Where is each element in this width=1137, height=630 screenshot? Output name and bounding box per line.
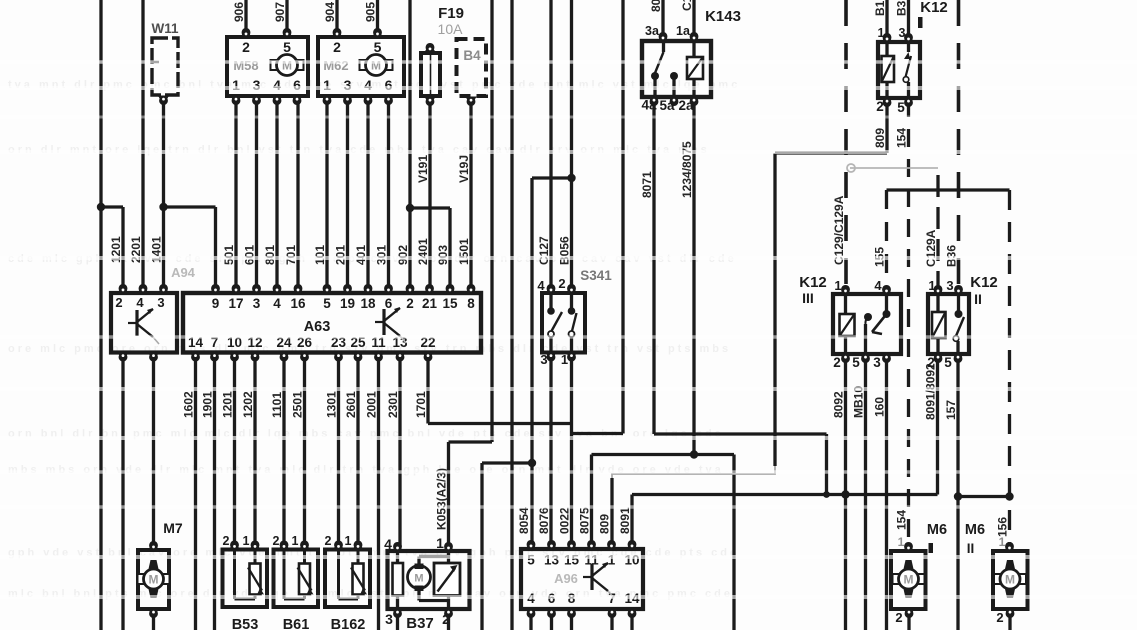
wire B37 pin 2 to bottom [447, 611, 450, 630]
svg-text:2: 2 [333, 39, 341, 55]
svg-text:907: 907 [273, 2, 287, 22]
switch S341 [537, 268, 612, 367]
wire B37 pin 3 to bottom [396, 611, 399, 630]
svg-text:8091: 8091 [618, 507, 632, 534]
wire 906 (M58 pin 2) [232, 0, 246, 34]
svg-text:4: 4 [384, 536, 392, 552]
svg-text:S341: S341 [580, 268, 612, 283]
wire C129A to K12-II pin 1 [924, 175, 938, 294]
svg-text:1: 1 [561, 352, 568, 367]
wire 2601 from A63 [344, 353, 358, 546]
control unit A63 [183, 284, 481, 362]
svg-text:B056: B056 [558, 236, 572, 265]
svg-text:C129A: C129A [924, 229, 938, 267]
svg-text:1602: 1602 [182, 391, 196, 418]
svg-text:3: 3 [253, 296, 261, 311]
svg-text:1701: 1701 [414, 391, 428, 418]
svg-text:III: III [802, 290, 814, 306]
wire 8075 horizontal link to A96 pin 11 [578, 455, 734, 630]
svg-text:3a: 3a [645, 24, 660, 38]
svg-text:II: II [974, 291, 982, 307]
motor M6 II [965, 522, 1028, 625]
wire 154 K12-I pin 5 down to M6-I [895, 99, 909, 546]
motor M7 [138, 520, 183, 618]
wire 2001 from A63 [365, 353, 379, 630]
svg-text:17: 17 [228, 296, 243, 311]
svg-text:3: 3 [344, 77, 352, 93]
wire 1201 from A63 [221, 353, 235, 546]
svg-text:M: M [414, 573, 423, 585]
svg-text:8071: 8071 [640, 171, 654, 198]
svg-text:1: 1 [232, 77, 240, 93]
svg-text:902: 902 [396, 245, 410, 265]
svg-text:8054: 8054 [517, 507, 531, 534]
svg-text:K143: K143 [705, 8, 741, 25]
wire 2301 A63.13 to B37 pin 4 [386, 353, 400, 547]
svg-text:4: 4 [874, 278, 882, 293]
svg-text:M: M [149, 573, 159, 587]
wire 1202 from A63 [241, 353, 255, 546]
svg-text:2601: 2601 [344, 391, 358, 418]
svg-text:905: 905 [364, 2, 378, 22]
relay K12 II [927, 274, 998, 370]
svg-text:1901: 1901 [201, 391, 215, 418]
relay K12 III [799, 274, 901, 370]
svg-text:5: 5 [323, 296, 331, 311]
gray inline connector link at y168 [847, 164, 938, 172]
svg-text:601: 601 [243, 245, 257, 265]
svg-text:501: 501 [222, 245, 236, 265]
wire C129/C129A dashed to K12-III pin 1 [832, 0, 846, 294]
svg-text:1101: 1101 [270, 392, 284, 418]
svg-text:21: 21 [422, 296, 438, 311]
svg-text:5: 5 [283, 39, 291, 55]
svg-text:5: 5 [374, 39, 382, 55]
svg-text:4: 4 [273, 296, 281, 311]
svg-text:8: 8 [467, 296, 475, 311]
wire K053(A2/3) from top to B37 pin 1 [435, 0, 492, 547]
svg-text:3: 3 [385, 611, 393, 627]
wire 156 label on M6-II feed [996, 517, 1010, 537]
svg-text:1: 1 [243, 534, 250, 548]
svg-text:6: 6 [293, 77, 301, 93]
svg-text:2001: 2001 [365, 391, 379, 418]
wire W11 to A94 pin 3 / A63 pin 9 (label 1401) [150, 97, 216, 293]
relay K12 I [876, 0, 948, 115]
svg-text:154: 154 [895, 510, 909, 530]
svg-text:2: 2 [996, 610, 1003, 625]
svg-text:10: 10 [624, 553, 639, 568]
component W11 (box) [151, 21, 179, 105]
svg-text:II: II [967, 541, 975, 556]
svg-text:B162: B162 [331, 617, 366, 630]
svg-text:904: 904 [323, 2, 337, 22]
svg-text:4a: 4a [641, 98, 657, 113]
svg-text:2401: 2401 [416, 238, 430, 265]
wire A94 pin lower-left to bottom [121, 353, 124, 630]
svg-text:201: 201 [334, 245, 348, 265]
svg-text:301: 301 [375, 245, 389, 265]
wire B1 (K12-I pin 1) [873, 0, 887, 40]
svg-text:156: 156 [996, 517, 1010, 537]
svg-text:A94: A94 [171, 265, 196, 280]
svg-text:B3: B3 [895, 0, 909, 16]
svg-text:5: 5 [944, 355, 952, 370]
wire 907 (M58 pin 5) [273, 0, 287, 34]
svg-text:2: 2 [833, 355, 841, 370]
wire 157 K12-II pin 5 down [944, 355, 962, 630]
motor M58 (window motor) [227, 28, 308, 105]
svg-text:K053(A2/3): K053(A2/3) [435, 468, 449, 530]
svg-text:1201: 1201 [221, 391, 235, 418]
svg-text:K12: K12 [799, 274, 827, 291]
svg-text:8075: 8075 [578, 507, 592, 534]
svg-text:1: 1 [834, 278, 841, 293]
wire M7 to bottom [152, 610, 155, 630]
svg-text:6: 6 [385, 77, 393, 93]
svg-text:2: 2 [442, 611, 450, 627]
svg-text:157: 157 [944, 400, 958, 420]
svg-text:2: 2 [242, 39, 250, 55]
wire 8076 S341.3 to A96 pin 13 [537, 354, 551, 546]
wire full-height bus x512 [510, 0, 513, 630]
wire C1.. (K143 pin 1a up) [680, 0, 694, 39]
svg-text:19: 19 [340, 296, 355, 311]
wire 1901 from A63 [201, 353, 215, 630]
svg-text:B36: B36 [945, 245, 959, 267]
svg-text:2501: 2501 [291, 391, 305, 418]
svg-text:154: 154 [895, 128, 909, 148]
wire 701 M58.6-A63.16 [284, 99, 298, 293]
svg-text:1: 1 [878, 26, 885, 40]
wire 155 K12-III pin 4 elbow to M6-II rail [873, 190, 1010, 546]
svg-text:F19: F19 [438, 5, 464, 22]
svg-text:1202: 1202 [241, 391, 255, 418]
wire 401 M62.4-A63.18 [354, 99, 368, 293]
wire 809 from K12-I pin 2 elbow west and down [775, 99, 887, 466]
svg-text:C1: C1 [680, 0, 694, 11]
wire 101 M62.1-A63.5 [313, 99, 327, 293]
wire 160 K12-III pin 3 down [873, 355, 887, 630]
svg-text:903: 903 [436, 245, 450, 265]
svg-text:M7: M7 [163, 520, 183, 536]
wire 8054 from node (532,178) to A96 pin 5 with branch to bottom [482, 178, 536, 630]
svg-text:13: 13 [544, 553, 560, 568]
fuse F19 10A [421, 5, 464, 106]
wire 80.. (K143 pin 3a up) [649, 0, 663, 39]
wire B3 (K12-I pin 3) [895, 0, 909, 40]
wire 2501 from A63 [291, 353, 305, 546]
gray link wire 809 continuation to A96 pin 1 [598, 466, 775, 546]
sensor B53 [223, 534, 268, 630]
wire 301 M62.6-A63.6 [375, 99, 389, 293]
wire 1301 from A63 [325, 353, 339, 546]
svg-text:M6: M6 [927, 522, 947, 538]
svg-text:15: 15 [564, 553, 580, 568]
svg-text:A63: A63 [304, 319, 331, 335]
svg-text:C127: C127 [537, 236, 551, 265]
wire 8092 K12-III pin 2 down [832, 355, 850, 630]
svg-text:5a: 5a [659, 98, 675, 113]
svg-text:8076: 8076 [537, 507, 551, 534]
wire M6-I to bottom [907, 610, 910, 630]
wire 2401 / V191 (F19 to A63 pin 21) [416, 101, 430, 293]
svg-text:0022: 0022 [558, 507, 572, 534]
svg-text:3: 3 [873, 355, 881, 370]
svg-text:5: 5 [897, 100, 905, 115]
svg-text:16: 16 [290, 296, 306, 311]
wire MB10 K12-III pin 5 down [852, 355, 866, 630]
svg-text:9: 9 [212, 296, 220, 311]
svg-text:809: 809 [873, 128, 887, 148]
svg-text:2: 2 [115, 295, 122, 310]
relay K143 [641, 8, 740, 113]
svg-text:18: 18 [360, 296, 376, 311]
svg-text:15: 15 [442, 296, 458, 311]
svg-text:4: 4 [136, 295, 144, 310]
wire 905 (M62 pin 5) [364, 0, 378, 34]
svg-text:M: M [904, 573, 914, 587]
motor M6 I [891, 522, 947, 625]
wire 8091/8092 K12-II pin 2 elbow west (H rail to A96 pin 10) [632, 355, 938, 495]
svg-text:A96: A96 [554, 571, 578, 586]
wire to A94 pin 4 (label 2201) [129, 0, 143, 293]
wire 8071 K143.4a elbow east [640, 99, 830, 498]
svg-text:801: 801 [263, 245, 277, 265]
svg-text:8092: 8092 [832, 391, 846, 418]
wire B36 dashed to K12-II pin 3 [945, 0, 959, 294]
svg-text:1501: 1501 [457, 238, 471, 265]
svg-text:4: 4 [364, 77, 372, 93]
svg-text:V19J: V19J [457, 155, 471, 183]
lock actuator B37 [384, 535, 469, 630]
svg-text:3: 3 [540, 352, 547, 367]
svg-text:B53: B53 [232, 617, 259, 630]
wire 801 M58.4-A63.4 [263, 99, 277, 293]
svg-text:1: 1 [436, 535, 444, 551]
wire x623 to node on 0022 wire [572, 0, 624, 434]
svg-text:906: 906 [232, 2, 246, 22]
svg-text:1: 1 [999, 535, 1006, 549]
wire 0022 S341.1 to A96 pin 15 [558, 354, 572, 546]
svg-text:2: 2 [558, 276, 565, 291]
svg-text:W11: W11 [151, 21, 179, 36]
svg-text:B1: B1 [873, 0, 887, 16]
svg-text:2: 2 [895, 610, 902, 625]
svg-text:1: 1 [608, 553, 616, 568]
svg-text:1: 1 [345, 534, 352, 548]
svg-text:5: 5 [527, 553, 535, 568]
wire 601 M58.3-A63.3 [243, 99, 257, 293]
svg-text:80: 80 [649, 0, 663, 12]
svg-text:K12: K12 [970, 274, 998, 291]
wire 902 to A63 pin 2 with branch 903 to pin 15 [396, 0, 450, 293]
svg-text:101: 101 [313, 245, 327, 265]
wire (leftmost vertical bus) [97, 0, 105, 630]
svg-text:5: 5 [852, 355, 860, 370]
svg-text:809: 809 [598, 514, 612, 534]
wire 1602 from A63 [182, 353, 196, 630]
svg-text:2: 2 [223, 534, 230, 548]
svg-text:2: 2 [325, 534, 332, 548]
wire B056 to S341 pin 2 with branch at y178 [532, 0, 576, 291]
svg-text:B37: B37 [406, 615, 434, 630]
svg-text:1: 1 [292, 534, 299, 548]
svg-text:1: 1 [898, 535, 905, 549]
svg-text:M: M [1005, 573, 1015, 587]
svg-text:1a: 1a [676, 24, 691, 38]
svg-text:1301: 1301 [325, 391, 339, 418]
svg-text:701: 701 [284, 245, 298, 265]
svg-text:2: 2 [273, 534, 280, 548]
sensor B61 [273, 534, 318, 630]
wire 1234/8075 K143.2a down to H-node [680, 99, 698, 459]
svg-text:K12: K12 [920, 0, 948, 16]
svg-text:6: 6 [385, 296, 393, 311]
svg-text:2: 2 [406, 296, 414, 311]
motor M62 (window motor) [318, 28, 404, 105]
svg-text:3: 3 [946, 278, 953, 293]
svg-text:4: 4 [537, 278, 545, 293]
svg-text:V191: V191 [416, 155, 430, 183]
svg-text:10A: 10A [438, 21, 464, 37]
wire M6-II to bottom [1008, 610, 1011, 630]
svg-text:2: 2 [927, 355, 935, 370]
wire 904 (M62 pin 2) [323, 0, 337, 34]
svg-text:M6: M6 [965, 522, 985, 538]
svg-text:2301: 2301 [386, 391, 400, 418]
wire 201 M62.3-A63.19 [334, 99, 348, 293]
svg-text:160: 160 [873, 397, 887, 417]
svg-text:2: 2 [876, 99, 884, 114]
wire 1101 from A63 [270, 353, 284, 546]
wire A94 lower-right to M7 [152, 353, 155, 546]
wires A96 bottom pins to bottom edge [531, 609, 632, 630]
svg-text:3: 3 [157, 295, 164, 310]
svg-text:B61: B61 [283, 617, 310, 630]
wire branch to A94 pin 2 (label 1201) [101, 207, 123, 293]
wire 1501 / V19J (B4 to A63 pin 8) [457, 101, 471, 293]
wire 1701 A63.22 joining node at x571 [414, 353, 571, 424]
svg-text:1: 1 [928, 278, 935, 293]
wire 8091 A96 pin 10 elbow to H-rail [618, 495, 632, 547]
connector/unit A96 [521, 540, 643, 618]
sensor B162 [325, 534, 370, 630]
svg-text:4: 4 [273, 77, 281, 93]
svg-text:3: 3 [253, 77, 261, 93]
wire C127 to S341 pin 4 [537, 0, 551, 291]
wire 501 M58.1-A63.17 [222, 99, 236, 293]
svg-text:1: 1 [323, 77, 331, 93]
component B4 (dashed box) [457, 39, 487, 106]
svg-text:8091/8092: 8091/8092 [924, 363, 938, 420]
svg-text:401: 401 [354, 245, 368, 265]
svg-text:1234/8075: 1234/8075 [680, 141, 694, 198]
svg-text:C129/C129A: C129/C129A [832, 195, 846, 265]
svg-text:2a: 2a [678, 98, 694, 113]
wire link 157 to M6-II rail [958, 492, 1014, 500]
module A94 (door control unit) [111, 265, 196, 362]
svg-text:3: 3 [899, 26, 906, 40]
